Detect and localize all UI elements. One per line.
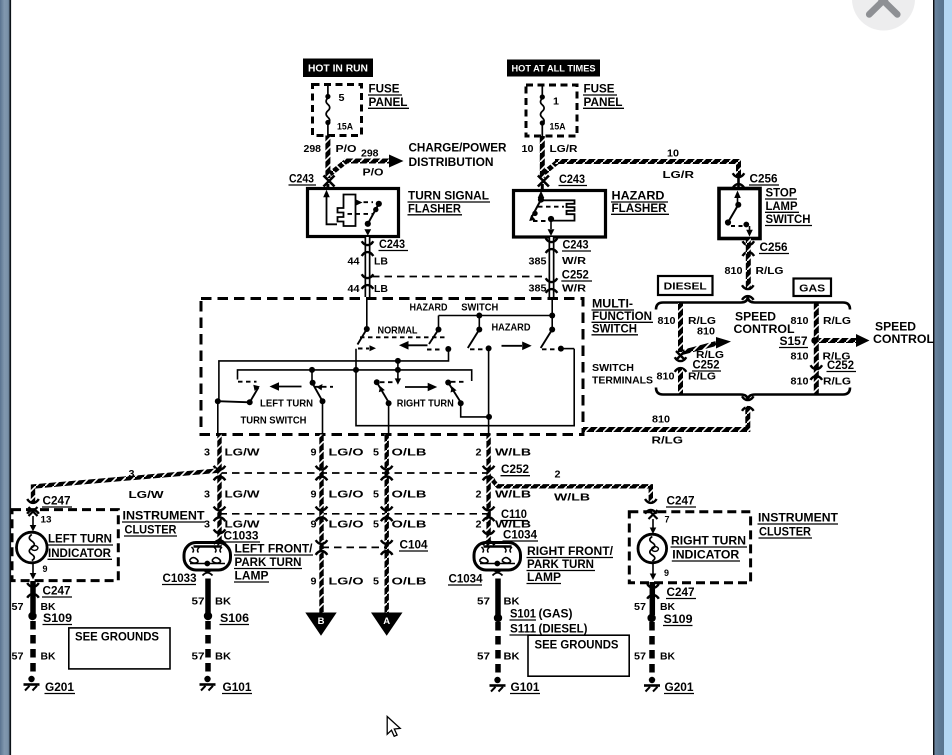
svg-text:LB: LB bbox=[374, 256, 388, 268]
svg-text:385: 385 bbox=[529, 256, 547, 268]
svg-text:(GAS): (GAS) bbox=[539, 609, 573, 621]
svg-text:C110: C110 bbox=[501, 509, 527, 521]
svg-text:PARK TURN: PARK TURN bbox=[527, 559, 594, 571]
svg-text:S111: S111 bbox=[510, 624, 537, 636]
svg-text:C1033: C1033 bbox=[224, 531, 259, 543]
svg-text:57: 57 bbox=[634, 651, 646, 663]
svg-text:R/LG: R/LG bbox=[756, 265, 784, 277]
svg-text:C104: C104 bbox=[400, 540, 429, 552]
svg-text:LG/O: LG/O bbox=[329, 576, 364, 588]
svg-text:C1033: C1033 bbox=[163, 573, 197, 585]
svg-text:9: 9 bbox=[311, 489, 317, 501]
svg-text:CLUSTER: CLUSTER bbox=[125, 525, 178, 537]
svg-text:C247: C247 bbox=[667, 587, 695, 599]
svg-text:9: 9 bbox=[43, 564, 48, 574]
svg-text:CLUSTER: CLUSTER bbox=[759, 527, 812, 539]
svg-text:SWITCH: SWITCH bbox=[592, 323, 637, 335]
svg-text:3: 3 bbox=[129, 468, 135, 480]
svg-text:TERMINALS: TERMINALS bbox=[592, 375, 653, 386]
svg-text:BK: BK bbox=[660, 651, 675, 663]
svg-text:C247: C247 bbox=[667, 496, 695, 508]
svg-text:10: 10 bbox=[667, 148, 679, 160]
svg-text:W/R: W/R bbox=[562, 283, 586, 295]
svg-text:5: 5 bbox=[373, 519, 379, 531]
svg-text:15A: 15A bbox=[337, 122, 353, 132]
svg-text:CONTROL: CONTROL bbox=[873, 334, 934, 346]
svg-text:LEFT TURN: LEFT TURN bbox=[260, 399, 313, 410]
svg-text:5: 5 bbox=[373, 489, 379, 501]
svg-text:2: 2 bbox=[555, 469, 561, 481]
svg-text:298: 298 bbox=[304, 143, 322, 155]
svg-text:INDICATOR: INDICATOR bbox=[672, 550, 740, 562]
svg-text:C243: C243 bbox=[559, 174, 585, 186]
svg-text:SWITCH: SWITCH bbox=[766, 214, 811, 226]
svg-text:810: 810 bbox=[791, 351, 809, 363]
svg-text:INDICATOR: INDICATOR bbox=[48, 548, 112, 560]
svg-text:13: 13 bbox=[41, 515, 52, 525]
svg-text:FUSE: FUSE bbox=[369, 84, 400, 96]
svg-text:W/LB: W/LB bbox=[495, 489, 532, 501]
svg-text:C256: C256 bbox=[750, 174, 778, 186]
svg-text:O/LB: O/LB bbox=[392, 489, 428, 501]
svg-text:W/LB: W/LB bbox=[495, 447, 532, 459]
svg-text:S106: S106 bbox=[220, 613, 249, 625]
svg-text:G101: G101 bbox=[511, 682, 541, 694]
svg-text:S109: S109 bbox=[664, 614, 693, 626]
svg-text:57: 57 bbox=[634, 601, 646, 613]
svg-text:9: 9 bbox=[311, 576, 317, 588]
svg-text:INSTRUMENT: INSTRUMENT bbox=[123, 511, 205, 523]
svg-text:STOP: STOP bbox=[766, 188, 797, 200]
svg-text:BK: BK bbox=[660, 601, 675, 613]
svg-text:5: 5 bbox=[339, 92, 345, 104]
svg-text:2: 2 bbox=[476, 447, 482, 459]
svg-text:FUNCTION: FUNCTION bbox=[592, 311, 652, 323]
svg-text:44: 44 bbox=[348, 283, 360, 295]
svg-text:C252: C252 bbox=[562, 270, 589, 282]
svg-text:57: 57 bbox=[192, 596, 205, 608]
svg-text:C256: C256 bbox=[760, 242, 788, 254]
svg-text:FLASHER: FLASHER bbox=[612, 203, 668, 215]
svg-text:LAMP: LAMP bbox=[527, 572, 561, 584]
svg-text:10: 10 bbox=[522, 143, 534, 155]
svg-text:RIGHT TURN: RIGHT TURN bbox=[397, 399, 454, 410]
svg-text:810: 810 bbox=[725, 265, 743, 277]
svg-text:G201: G201 bbox=[45, 682, 75, 694]
svg-text:SWITCH: SWITCH bbox=[592, 363, 634, 374]
svg-text:HOT IN RUN: HOT IN RUN bbox=[308, 64, 368, 75]
svg-text:O/LB: O/LB bbox=[392, 519, 428, 531]
svg-text:9: 9 bbox=[311, 519, 317, 531]
svg-text:SWITCH: SWITCH bbox=[461, 303, 498, 314]
svg-text:C243: C243 bbox=[379, 239, 405, 251]
svg-text:C252: C252 bbox=[827, 360, 854, 372]
svg-text:57: 57 bbox=[192, 651, 205, 663]
svg-text:P/O: P/O bbox=[336, 143, 357, 155]
svg-text:57: 57 bbox=[12, 651, 24, 663]
svg-text:B: B bbox=[318, 616, 325, 627]
svg-text:3: 3 bbox=[204, 447, 210, 459]
svg-text:LG/W: LG/W bbox=[225, 489, 260, 501]
svg-text:LG/W: LG/W bbox=[225, 519, 260, 531]
svg-text:R/LG: R/LG bbox=[823, 315, 851, 327]
svg-text:810: 810 bbox=[697, 326, 715, 338]
svg-text:C1034: C1034 bbox=[449, 574, 484, 586]
svg-text:LEFT TURN: LEFT TURN bbox=[48, 534, 112, 546]
svg-text:HAZARD: HAZARD bbox=[612, 191, 665, 203]
svg-text:O/LB: O/LB bbox=[392, 576, 428, 588]
svg-text:1: 1 bbox=[553, 96, 559, 108]
svg-text:SPEED: SPEED bbox=[875, 322, 916, 334]
svg-text:P/O: P/O bbox=[363, 167, 384, 179]
svg-text:RIGHT FRONT/: RIGHT FRONT/ bbox=[527, 546, 614, 558]
svg-text:SEE GROUNDS: SEE GROUNDS bbox=[75, 632, 159, 644]
svg-text:BK: BK bbox=[215, 596, 231, 608]
svg-text:385: 385 bbox=[529, 283, 547, 295]
svg-text:W/LB: W/LB bbox=[554, 492, 591, 504]
svg-text:810: 810 bbox=[652, 414, 670, 426]
svg-text:S157: S157 bbox=[780, 336, 808, 348]
svg-text:RIGHT TURN: RIGHT TURN bbox=[671, 536, 746, 548]
svg-text:57: 57 bbox=[477, 651, 490, 663]
svg-text:FLASHER: FLASHER bbox=[408, 203, 462, 215]
svg-text:LAMP: LAMP bbox=[235, 571, 269, 583]
svg-text:C243: C243 bbox=[289, 174, 314, 186]
svg-text:BK: BK bbox=[41, 601, 56, 613]
svg-text:PANEL: PANEL bbox=[369, 97, 408, 109]
svg-text:GAS: GAS bbox=[799, 283, 825, 295]
svg-text:2: 2 bbox=[476, 519, 482, 531]
svg-text:3: 3 bbox=[204, 489, 210, 501]
svg-text:HOT AT ALL TIMES: HOT AT ALL TIMES bbox=[512, 64, 596, 75]
svg-text:810: 810 bbox=[657, 371, 675, 383]
svg-text:44: 44 bbox=[348, 256, 360, 268]
svg-text:INSTRUMENT: INSTRUMENT bbox=[758, 513, 838, 525]
svg-text:BK: BK bbox=[504, 651, 520, 663]
svg-text:LEFT FRONT/: LEFT FRONT/ bbox=[235, 544, 314, 556]
svg-text:O/LB: O/LB bbox=[392, 447, 428, 459]
svg-text:R/LG: R/LG bbox=[823, 376, 851, 388]
svg-text:LG/O: LG/O bbox=[329, 519, 364, 531]
svg-text:57: 57 bbox=[477, 596, 490, 608]
svg-text:HAZARD: HAZARD bbox=[492, 323, 531, 334]
svg-text:3: 3 bbox=[204, 519, 210, 531]
svg-text:LG/O: LG/O bbox=[329, 489, 364, 501]
svg-text:810: 810 bbox=[791, 376, 809, 388]
svg-text:SPEED: SPEED bbox=[735, 312, 776, 324]
svg-text:298: 298 bbox=[361, 148, 379, 160]
svg-text:TURN SWITCH: TURN SWITCH bbox=[241, 416, 307, 427]
svg-text:BK: BK bbox=[504, 596, 520, 608]
svg-text:BK: BK bbox=[41, 651, 56, 663]
svg-text:LG/O: LG/O bbox=[329, 447, 364, 459]
svg-text:9: 9 bbox=[664, 568, 669, 578]
svg-text:5: 5 bbox=[373, 576, 379, 588]
svg-text:MULTI-: MULTI- bbox=[592, 299, 633, 311]
svg-text:810: 810 bbox=[658, 315, 676, 327]
svg-text:BK: BK bbox=[215, 651, 231, 663]
svg-text:PARK TURN: PARK TURN bbox=[235, 557, 302, 569]
svg-text:A: A bbox=[383, 616, 390, 627]
svg-text:(DIESEL): (DIESEL) bbox=[539, 624, 588, 636]
svg-text:LG/W: LG/W bbox=[129, 489, 164, 501]
svg-text:R/LG: R/LG bbox=[652, 435, 684, 447]
svg-text:LG/R: LG/R bbox=[550, 143, 578, 155]
svg-text:SEE GROUNDS: SEE GROUNDS bbox=[535, 640, 619, 652]
svg-text:CHARGE/POWER: CHARGE/POWER bbox=[409, 143, 508, 155]
svg-text:C252: C252 bbox=[501, 464, 529, 476]
svg-text:S109: S109 bbox=[43, 613, 72, 625]
svg-text:G201: G201 bbox=[665, 682, 695, 694]
svg-text:NORMAL: NORMAL bbox=[378, 326, 418, 337]
svg-text:LG/W: LG/W bbox=[225, 447, 260, 459]
svg-text:9: 9 bbox=[311, 447, 317, 459]
svg-text:5: 5 bbox=[373, 447, 379, 459]
svg-text:C247: C247 bbox=[43, 496, 71, 508]
svg-text:G101: G101 bbox=[223, 682, 253, 694]
svg-text:2: 2 bbox=[476, 489, 482, 501]
svg-text:W/R: W/R bbox=[562, 255, 586, 267]
svg-text:TURN SIGNAL: TURN SIGNAL bbox=[408, 191, 489, 203]
svg-text:C247: C247 bbox=[43, 586, 71, 598]
svg-text:CONTROL: CONTROL bbox=[734, 324, 795, 336]
svg-text:DISTRIBUTION: DISTRIBUTION bbox=[409, 157, 494, 169]
svg-text:C1034: C1034 bbox=[503, 530, 538, 542]
svg-text:57: 57 bbox=[12, 601, 24, 613]
svg-text:R/LG: R/LG bbox=[688, 371, 716, 383]
svg-text:PANEL: PANEL bbox=[584, 97, 623, 109]
svg-text:15A: 15A bbox=[550, 122, 566, 132]
svg-text:LB: LB bbox=[374, 283, 388, 295]
svg-text:S101: S101 bbox=[510, 609, 537, 621]
svg-text:C243: C243 bbox=[563, 240, 589, 252]
svg-text:FUSE: FUSE bbox=[584, 84, 615, 96]
svg-text:HAZARD: HAZARD bbox=[410, 303, 448, 314]
svg-text:LG/R: LG/R bbox=[663, 169, 695, 181]
svg-text:LAMP: LAMP bbox=[766, 201, 798, 213]
svg-text:7: 7 bbox=[665, 515, 670, 525]
svg-text:DIESEL: DIESEL bbox=[664, 281, 708, 293]
